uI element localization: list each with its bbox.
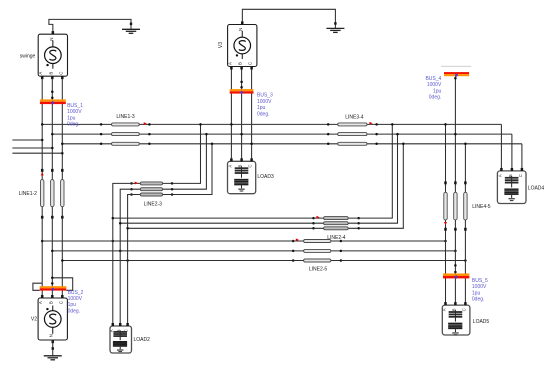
junction row B at BUS_4 stem <box>454 133 457 136</box>
wire LINE2-5 phase B to BUS_5 string <box>341 250 456 252</box>
svg-text:B: B <box>48 301 53 304</box>
wire swinge N pin to ground <box>49 19 131 31</box>
bus BUS_5 bar <box>443 274 469 276</box>
svg-text:BUS_3: BUS_3 <box>257 93 273 99</box>
svg-text:1000V: 1000V <box>427 82 442 88</box>
junctions LINE2-5 net at LOAD2 string <box>112 240 115 243</box>
line element LINE3-4 phase A <box>327 123 330 126</box>
wire phase B V3 to LOAD3 <box>241 69 243 158</box>
junctions LINE2-5 net at generator string <box>41 240 44 243</box>
svg-text:C: C <box>58 301 63 304</box>
svg-text:LINE1-3: LINE1-3 <box>116 114 135 120</box>
svg-text:BUS_5: BUS_5 <box>472 278 488 284</box>
wire LINE2-4 net phase C from LOAD2 string <box>128 227 314 229</box>
wire LINE2-5 phase C to BUS_5 string <box>341 260 466 262</box>
load LOAD2 <box>110 326 132 353</box>
wire LINE2-4 phase B up to row B <box>359 134 398 223</box>
wire phase B LINE4-5 to BUS_5 and LOAD5 <box>454 231 456 303</box>
wire V2 N pin to ground <box>52 340 54 347</box>
line element LINE1-2 phase B (vertical) <box>51 169 54 172</box>
bus BUS_2 bar <box>40 286 67 288</box>
svg-text:B: B <box>48 72 53 75</box>
svg-text:LINE3-4: LINE3-4 <box>345 115 364 121</box>
junctions V3 string at rows <box>230 123 233 126</box>
wire row C BUS_1 area to LOAD4 (top net phase C) <box>62 143 522 145</box>
svg-text:A: A <box>442 308 447 311</box>
line element LINE2-5 phase C <box>292 259 295 262</box>
load LOAD3 <box>228 161 256 193</box>
wire V3 N pin to ground <box>242 9 335 28</box>
line element LINE1-3 phase C <box>100 143 103 146</box>
wire BUS_2 right bracket to bar end <box>52 278 72 291</box>
line element LINE3-4 phase B <box>327 133 330 136</box>
wire LINE2-4 phase C up to row C <box>359 144 404 229</box>
svg-text:0deg.: 0deg. <box>429 95 442 101</box>
junctions of left stubs <box>41 139 44 142</box>
current arrow LINE2-4 <box>316 216 319 219</box>
wire LINE2-3 phase A down to LOAD2 <box>113 183 132 323</box>
wire phase A LINE1-2 to BUS_2 and V2 <box>41 219 43 296</box>
wire LINE2-4 phase A up to row A <box>359 124 393 218</box>
svg-text:N: N <box>49 334 54 337</box>
line element LINE3-4 phase C <box>327 143 330 146</box>
line element LINE2-3 phase A <box>130 182 133 185</box>
svg-text:A: A <box>38 72 43 75</box>
svg-text:C: C <box>518 174 523 177</box>
wire phase C LINE4-5 to BUS_5 and LOAD5 <box>464 231 466 303</box>
load LOAD4 <box>497 171 526 204</box>
line element LINE2-3 phase C <box>130 193 133 196</box>
wire row A down to LINE4-5 phase A <box>445 124 447 181</box>
svg-text:LINE2-5: LINE2-5 <box>309 267 328 273</box>
wire LINE2-5 phase A to BUS_5 string <box>341 240 446 242</box>
wire phase C LINE1-2 to BUS_2 and V2 <box>61 219 63 296</box>
svg-text:1pu: 1pu <box>257 105 266 111</box>
line element LINE2-4 phase B <box>312 222 315 225</box>
current arrow LINE3-4 <box>369 122 372 125</box>
wire phase C V3 to LOAD3 <box>251 69 253 158</box>
left stub wire phase A <box>12 139 42 141</box>
svg-text:A: A <box>109 329 114 332</box>
line element LINE2-5 phase A <box>292 240 295 243</box>
svg-text:1000V: 1000V <box>67 109 82 115</box>
svg-text:1pu: 1pu <box>68 302 77 308</box>
svg-text:LOAD3: LOAD3 <box>257 174 274 180</box>
line element LINE1-2 phase C (vertical) <box>61 169 64 172</box>
wire LINE2-3 phase B down to LOAD2 <box>120 189 131 323</box>
wire BUS_4 stem down to LINE4-5 phase B <box>454 76 456 181</box>
wire phase A swinge to LINE1-2 <box>41 79 43 169</box>
line element LINE1-3 phase B <box>100 133 103 136</box>
svg-text:0deg.: 0deg. <box>257 111 270 117</box>
bus BUS_3 bar <box>230 89 254 91</box>
bus BUS_4 bar <box>444 72 469 74</box>
wire row C down to LINE4-5 phase C <box>464 144 466 182</box>
svg-text:C: C <box>248 62 253 65</box>
svg-text:A: A <box>497 174 502 177</box>
line element LINE1-2 phase A (vertical) <box>41 169 44 172</box>
svg-text:LINE1-2: LINE1-2 <box>19 191 38 197</box>
svg-text:swinge: swinge <box>20 53 36 59</box>
current arrow LINE2-3 <box>135 182 138 185</box>
line element LINE2-4 phase C <box>312 227 315 230</box>
wire phase B LINE1-2 to BUS_2 and V2 <box>51 219 53 296</box>
svg-text:A: A <box>38 301 43 304</box>
svg-text:N: N <box>49 38 54 41</box>
svg-text:0deg.: 0deg. <box>67 122 80 128</box>
wire LINE2-3 phase C to row C <box>172 144 212 195</box>
svg-text:A: A <box>227 62 232 65</box>
wire phase B swinge to LINE1-2 <box>51 79 53 169</box>
svg-text:LOAD5: LOAD5 <box>473 319 490 325</box>
svg-text:0deg.: 0deg. <box>472 297 485 303</box>
wire LINE2-4 net phase B from LOAD2 string <box>120 222 313 224</box>
wire row B BUS_1 area to LOAD4 (top net phase B) <box>52 133 512 135</box>
svg-text:1pu: 1pu <box>433 88 442 94</box>
current arrow LINE1-2 <box>41 172 44 175</box>
left stub wire phase B <box>12 147 52 149</box>
ground near swinge <box>130 23 132 26</box>
wire BUS_2 left bracket to bar end <box>33 283 42 290</box>
svg-text:V2: V2 <box>31 316 37 322</box>
generator swinge <box>38 34 67 76</box>
junction dots phase B above BUS_5 <box>454 264 457 267</box>
generator V2 <box>38 298 67 340</box>
faint guide above BUS_4 <box>441 65 471 67</box>
svg-text:1000V: 1000V <box>257 99 272 105</box>
junction dots phase B above BUS_1 <box>51 90 54 93</box>
svg-text:V3: V3 <box>218 42 224 48</box>
wire LINE2-5 net phase C from BUS_2 string <box>62 260 293 262</box>
line element LINE2-3 phase B <box>130 188 133 191</box>
junction dots phase B above BUS_3 <box>240 81 243 84</box>
wire LINE2-3 phase B to row B <box>172 134 206 189</box>
junctions rows at generator string <box>41 123 44 126</box>
line element LINE4-5 phase C (vertical) <box>464 181 467 184</box>
wire row A BUS_1 area to LOAD4 (top net phase A) <box>42 123 501 125</box>
svg-text:LOAD4: LOAD4 <box>528 185 545 191</box>
line element LINE4-5 phase A (vertical) <box>444 181 447 184</box>
line element LINE1-3 phase A <box>100 123 103 126</box>
svg-text:LINE2-3: LINE2-3 <box>144 202 163 208</box>
svg-text:LINE2-4: LINE2-4 <box>327 235 346 241</box>
wire phase A V3 to LOAD3 <box>230 69 232 158</box>
current arrow LINE4-5 <box>444 222 447 225</box>
junction dot below BUS_4 <box>454 77 457 80</box>
svg-text:BUS_2: BUS_2 <box>68 290 84 296</box>
junction dots phase B above BUS_2 <box>51 277 54 280</box>
wire LINE2-3 phase A to row A <box>172 124 200 183</box>
bus BUS_1 bar <box>40 99 66 101</box>
svg-text:0deg.: 0deg. <box>68 308 81 314</box>
svg-text:B: B <box>238 62 243 65</box>
svg-text:BUS_1: BUS_1 <box>67 103 83 109</box>
svg-text:LOAD2: LOAD2 <box>134 337 151 343</box>
line element LINE2-4 phase A <box>312 217 315 220</box>
svg-text:N: N <box>238 28 243 31</box>
svg-text:C: C <box>248 165 253 168</box>
svg-text:1000V: 1000V <box>472 284 487 290</box>
svg-text:C: C <box>58 72 63 75</box>
svg-text:BUS_4: BUS_4 <box>425 76 441 82</box>
wire LINE2-4 net phase A from LOAD2 string <box>113 217 314 219</box>
svg-text:1pu: 1pu <box>472 290 481 296</box>
svg-text:LINE4-5: LINE4-5 <box>472 204 491 210</box>
wire phase A LINE4-5 to BUS_5 and LOAD5 <box>445 231 447 303</box>
ground below V2 <box>52 347 54 350</box>
wire LINE2-5 net phase B from BUS_2 string <box>52 250 293 252</box>
svg-text:1pu: 1pu <box>67 115 76 121</box>
wire phase C swinge to LINE1-2 <box>61 79 63 169</box>
svg-text:C: C <box>461 308 466 311</box>
load LOAD5 <box>442 305 470 335</box>
line element LINE4-5 phase B (vertical) <box>454 181 457 184</box>
current arrow LINE2-5 <box>296 238 299 241</box>
ground near V3 <box>334 22 336 25</box>
generator V3 <box>228 25 257 67</box>
svg-text:1000V: 1000V <box>68 296 83 302</box>
left stub wire phase C <box>12 152 62 154</box>
line element LINE2-5 phase B <box>292 250 295 253</box>
wire LINE2-5 net phase A from BUS_2 string <box>42 240 293 242</box>
current arrow LINE1-3 <box>144 122 147 125</box>
wire LINE2-3 phase C down to LOAD2 <box>128 195 132 324</box>
svg-text:A: A <box>227 164 232 167</box>
